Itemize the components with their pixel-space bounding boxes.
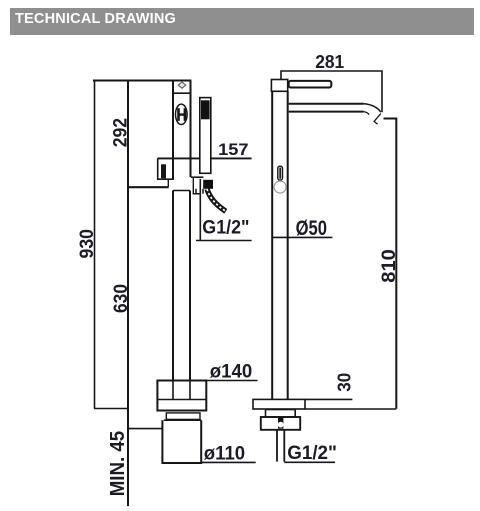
connector nut line	[193, 189, 203, 194]
collar lip	[164, 419, 202, 421]
bracket hook dark	[161, 164, 166, 178]
svg-text:930: 930	[76, 229, 98, 259]
label 930	[76, 229, 98, 259]
bracket left leg	[158, 158, 174, 179]
G1/2 underline right view	[284, 461, 335, 463]
keyhole circle	[278, 422, 284, 428]
svg-text:292: 292	[110, 118, 132, 148]
step to 810 line	[384, 119, 397, 409]
svg-text:G1/2": G1/2"	[202, 218, 249, 239]
label 157	[218, 140, 248, 159]
label 292	[110, 118, 132, 148]
label 630	[110, 284, 132, 313]
mid tick line 292/630 boundary	[127, 186, 169, 188]
svg-text:630: 630	[110, 284, 132, 313]
dim line 281	[281, 71, 382, 112]
label dia50	[296, 217, 327, 240]
handle H bars	[177, 108, 186, 121]
vertical below shelf	[192, 177, 194, 193]
label 30	[333, 373, 354, 392]
spout end curve	[364, 104, 381, 112]
hand shower head black fill	[201, 100, 210, 119]
flange outer box	[157, 381, 206, 411]
svg-text:Ø50: Ø50	[296, 217, 327, 240]
dim line 157	[158, 157, 252, 159]
dim line 930 vertical	[94, 81, 96, 409]
collar under flange	[166, 413, 200, 420]
svg-text:ø140: ø140	[210, 361, 253, 383]
bracket to tick vertical	[167, 180, 169, 187]
lever black bar	[289, 81, 332, 88]
top cap right view	[271, 80, 287, 92]
thread marks	[278, 418, 283, 429]
diverter slot fill	[279, 168, 281, 179]
spout bottom line	[289, 111, 364, 113]
svg-text:30: 30	[333, 373, 354, 392]
hose stripes	[207, 189, 226, 211]
floor line left view	[94, 408, 128, 410]
label dia110	[204, 442, 245, 464]
column right view	[271, 91, 273, 399]
svg-text:810: 810	[378, 249, 400, 283]
column right edge	[287, 91, 289, 399]
dim line 292/630 vertical (column left edge extended)	[127, 81, 129, 507]
top tick line / column top	[93, 80, 191, 82]
dia110 underline	[201, 461, 256, 463]
lower nut right view	[261, 417, 300, 430]
G1/2 leader left view	[196, 179, 252, 241]
handle oval	[176, 104, 188, 124]
svg-text:G1/2": G1/2"	[287, 442, 337, 464]
base plate right view	[253, 399, 305, 409]
spout end arrow	[364, 112, 381, 125]
label G1/2 right	[287, 442, 337, 464]
svg-text:157: 157	[218, 140, 248, 159]
spout top line	[289, 103, 364, 105]
threaded pipe right view	[277, 430, 284, 462]
30 tick extension	[305, 398, 352, 400]
dia50 underline	[272, 236, 333, 238]
knob circle	[274, 181, 286, 193]
flange inner verticals	[173, 381, 190, 400]
dia140 underline	[206, 380, 257, 382]
cap bottom line	[173, 92, 191, 94]
label G1/2 left	[202, 218, 249, 239]
svg-text:281: 281	[315, 51, 344, 72]
label 810	[378, 249, 400, 283]
MIN.45 tick line	[128, 428, 163, 430]
collar under base	[266, 410, 296, 418]
lower column top edge	[173, 190, 190, 192]
label 281	[315, 51, 344, 72]
hand shower outline	[200, 98, 211, 174]
svg-text:MIN. 45: MIN. 45	[107, 431, 129, 497]
column body left view	[172, 81, 174, 181]
label MIN. 45	[107, 431, 129, 497]
header bar TECHNICAL DRAWING	[10, 8, 474, 35]
floor line right view	[305, 408, 396, 410]
lower column left view	[173, 191, 190, 381]
bottom pipe left view	[162, 420, 201, 463]
label dia140	[210, 361, 253, 383]
flange divider	[157, 399, 206, 401]
hose connector black	[203, 180, 213, 189]
svg-text:ø110: ø110	[204, 442, 245, 464]
column right section edge	[190, 81, 192, 178]
hose curve	[207, 189, 226, 211]
diverter slot knob	[278, 166, 283, 180]
shelf line right of section	[191, 176, 203, 178]
screw diamond	[178, 82, 185, 88]
